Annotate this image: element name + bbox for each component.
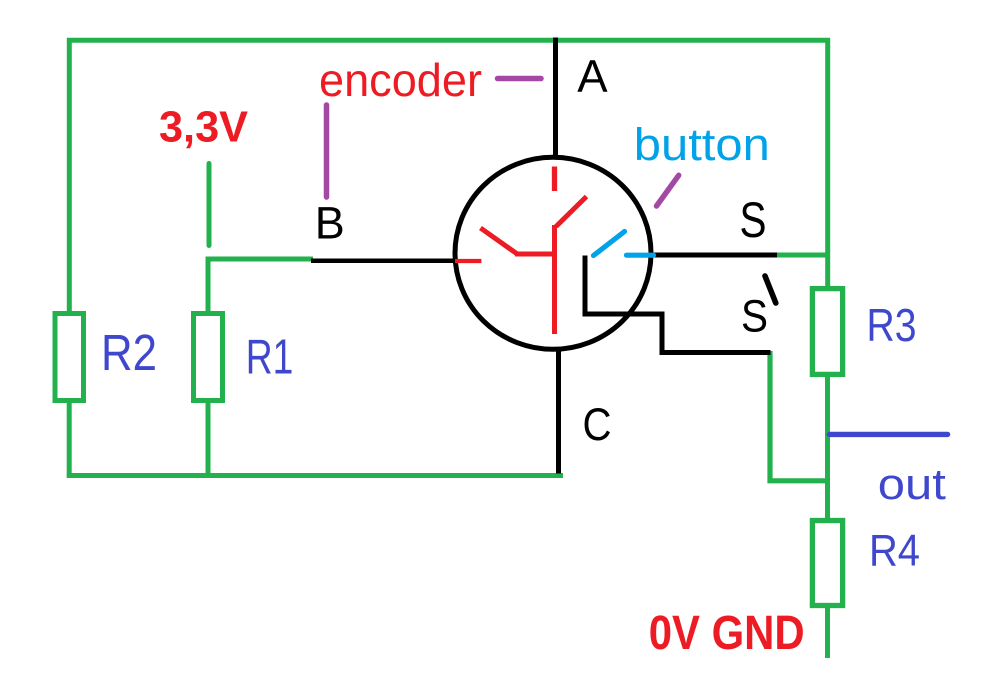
encoder red contact: center vertical [552, 225, 557, 334]
wire green S-prime return (down then right to node) [770, 351, 828, 481]
wire green ground lead below R4 [825, 606, 830, 658]
wire black B segment to circle [311, 258, 455, 263]
encoder red contact: upper diagonal [556, 197, 587, 227]
button cyan contact: horizontal dash [627, 253, 654, 258]
encoder red contact: left arm horizontal [515, 252, 557, 257]
wire green R1 bottom lead [206, 401, 211, 477]
encoder red contact: left arm diagonal [481, 228, 518, 254]
pointer purple encoder vertical [324, 105, 330, 197]
wire green R3-R4 vertical [825, 374, 830, 520]
wire green R2 bottom lead [67, 401, 72, 478]
svg-text:R3: R3 [867, 299, 917, 351]
svg-text:R2: R2 [101, 324, 157, 381]
svg-text:A: A [577, 51, 608, 102]
button cyan contact: diagonal [594, 232, 625, 256]
wire black A (anode) vertical [553, 38, 558, 157]
wire green base B segment [206, 257, 313, 262]
svg-text:B: B [315, 198, 345, 249]
svg-text:0V GND: 0V GND [649, 606, 805, 660]
encoder red contact: top dash [552, 167, 557, 192]
svg-text:encoder: encoder [319, 54, 482, 106]
wire green bottom rail [67, 473, 563, 478]
resistor R4 [812, 521, 842, 606]
wire green R1 top lead [206, 257, 211, 314]
svg-text:R1: R1 [246, 331, 294, 385]
svg-text:button: button [634, 119, 770, 170]
encoder body circle [455, 157, 651, 349]
pointer purple encoder horizontal dash [498, 76, 542, 82]
encoder red contact: left dash [455, 259, 481, 263]
wire green 3.3V stub [207, 164, 212, 246]
wire black S-prime switch path [585, 256, 771, 353]
wire green outer loop (3.3V rail: left vertical, top rail, right vertical) [69, 40, 827, 313]
S-prime tick mark [765, 276, 776, 303]
svg-text:S: S [741, 291, 768, 342]
svg-text:R4: R4 [869, 527, 920, 576]
resistor R3 [812, 289, 842, 375]
wire blue out line [830, 432, 948, 437]
wire black S segment [653, 253, 777, 258]
pointer purple button diagonal [657, 175, 679, 206]
wire green S segment [775, 253, 828, 258]
wire black C (common) vertical [556, 350, 561, 474]
resistor R1 [194, 314, 223, 401]
svg-text:C: C [583, 399, 612, 450]
svg-text:S: S [740, 192, 767, 248]
resistor R2 [55, 314, 84, 401]
svg-text:out: out [878, 460, 946, 509]
svg-text:3,3V: 3,3V [159, 103, 249, 152]
